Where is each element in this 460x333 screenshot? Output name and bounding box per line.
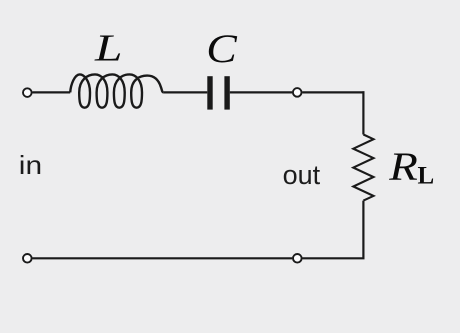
wire: inductor to capacitor (164, 91, 208, 93)
svg-text:C: C (206, 28, 238, 72)
svg-text:R: R (388, 145, 418, 189)
resistor R_L zigzag (353, 135, 373, 201)
node label in (19, 151, 42, 180)
terminal: input top (open circle) (23, 88, 32, 97)
wire: resistor to bottom-right corner (302, 201, 363, 259)
wire top rail: input terminal to inductor (32, 91, 70, 93)
value label C (206, 28, 238, 72)
wire: capacitor to output terminal (230, 91, 292, 93)
inductor L (70, 74, 164, 107)
value label R_L (388, 145, 418, 189)
wire: output terminal to top-right corner (302, 91, 364, 93)
svg-text:in: in (19, 151, 42, 180)
svg-text:L: L (94, 27, 123, 69)
svg-text:L: L (418, 162, 435, 189)
value label L (94, 27, 123, 69)
terminal: input bottom (open circle) (23, 254, 32, 263)
terminal: output top (open circle) (293, 88, 302, 97)
terminal: output bottom (open circle) (293, 254, 302, 263)
wire bottom rail: output terminal to input terminal (32, 257, 292, 259)
capacitor C right plate (224, 76, 229, 109)
capacitor C left plate (207, 76, 212, 109)
wire: right vertical down to resistor (362, 91, 364, 134)
svg-text:out: out (283, 160, 321, 190)
